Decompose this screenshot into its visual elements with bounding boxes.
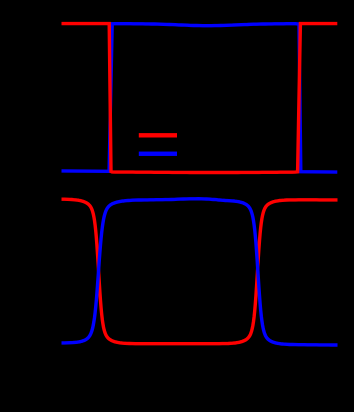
legend blue key line: [139, 152, 177, 156]
top subplot: blue curve (drawn first, under red): [62, 24, 338, 172]
bottom subplot: blue curve (drawn on top): [62, 199, 338, 345]
top subplot: red curve (drawn on top): [62, 24, 338, 173]
bottom subplot: red curve (drawn first, under blue): [62, 199, 338, 344]
legend red key line: [139, 133, 177, 137]
